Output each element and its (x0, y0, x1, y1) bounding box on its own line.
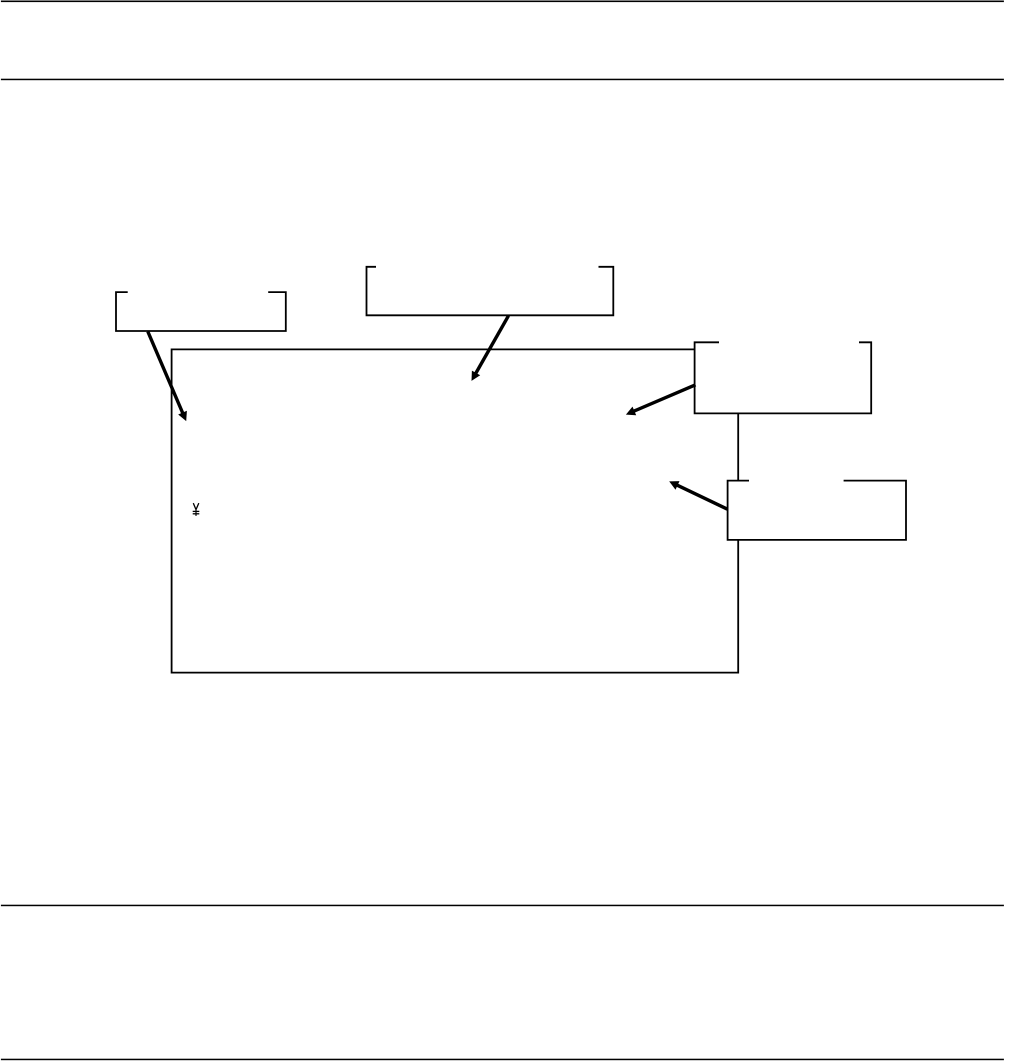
yen symbol on receipt (193, 503, 200, 516)
footer rule top (1, 905, 1004, 907)
callout box 2 (top-center bracket box) (367, 267, 614, 316)
callout box 3 (right upper bracket box) (695, 342, 872, 413)
receipt outline (large rectangle) (172, 349, 739, 672)
callout box 1 (top-left bracket box) (116, 292, 286, 331)
arrow from callout box 1 into receipt (148, 332, 187, 422)
header rule bottom (1, 79, 1004, 81)
callout box 4 (right lower bracket box) (728, 481, 906, 540)
footer rule bottom (1, 1059, 1004, 1061)
connector between callout box 3 and callout box 4 (737, 413, 739, 480)
arrow from callout box 4 into receipt (669, 481, 727, 509)
arrow from callout box 2 into receipt (472, 316, 509, 381)
arrow from callout box 3 into receipt (626, 385, 696, 416)
header rule top (1, 1, 1004, 3)
